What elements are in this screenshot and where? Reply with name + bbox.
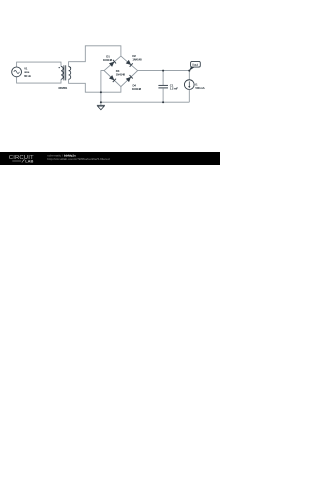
diode D4 xyxy=(126,75,133,82)
svg-text:60 Hz: 60 Hz xyxy=(24,74,31,78)
wire bridge left corner stub down to bottom rail xyxy=(101,71,104,103)
wire transformer secondary top to bridge top corner xyxy=(69,46,121,67)
label I1 xyxy=(195,83,205,91)
svg-text:LAB: LAB xyxy=(25,159,33,164)
wire transformer secondary bottom down to bottom node xyxy=(69,79,121,92)
footer bar xyxy=(0,152,220,165)
bridge diamond edges xyxy=(104,56,138,87)
diode D3 xyxy=(109,75,116,82)
svg-text:1N4148: 1N4148 xyxy=(132,87,142,91)
junction at ground rail xyxy=(100,101,102,103)
capacitor C1 xyxy=(158,71,168,103)
node Vout flag xyxy=(189,61,200,70)
transformer phase dot primary xyxy=(59,67,60,68)
svg-text:http://circuitlab.com/c/7kf66u: http://circuitlab.com/c/7kf66u/rectifier… xyxy=(47,157,110,161)
svg-text:1N4148: 1N4148 xyxy=(116,72,126,76)
wire V1 top to transformer primary top xyxy=(17,62,61,67)
transformer XFMR1 xyxy=(61,65,71,80)
transformer phase dot secondary xyxy=(70,67,71,68)
junction at capacitor bottom xyxy=(162,101,164,103)
svg-text:1N4148: 1N4148 xyxy=(132,57,142,61)
diode D1 xyxy=(109,60,116,67)
current source I1 xyxy=(184,71,194,103)
junction at capacitor top xyxy=(162,70,164,72)
junction at bottom-left rail xyxy=(100,91,102,93)
wire output rail from bridge right corner xyxy=(138,70,190,72)
voltage source V1 xyxy=(12,67,22,77)
label D3 xyxy=(116,69,126,76)
svg-text:1N4148: 1N4148 xyxy=(103,58,113,62)
svg-text:XFMR1: XFMR1 xyxy=(58,86,67,90)
label D2 xyxy=(132,54,142,62)
junction at Vout node xyxy=(188,70,190,72)
label C1 xyxy=(170,83,178,90)
svg-text:500 mA: 500 mA xyxy=(195,86,205,90)
label D4 xyxy=(132,84,142,91)
wire bottom rail to loads xyxy=(101,101,189,103)
label D1 xyxy=(103,54,113,61)
svg-text:Vout: Vout xyxy=(192,63,198,67)
svg-text:1.2 mF: 1.2 mF xyxy=(170,87,178,91)
wire V1 bottom to transformer primary bottom xyxy=(17,77,61,83)
footer logo CIRCUIT LAB xyxy=(9,155,34,163)
ground xyxy=(97,102,105,110)
diode D2 xyxy=(126,60,133,67)
label V1 value xyxy=(24,66,31,78)
